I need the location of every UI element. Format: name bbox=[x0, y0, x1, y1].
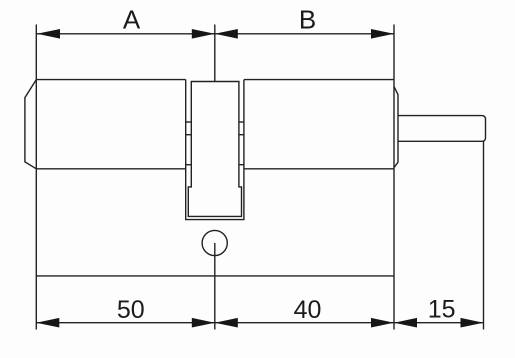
wire dimension line 40 bbox=[215, 322, 394, 324]
node arrow A left bbox=[37, 29, 60, 39]
node right chamfer collar bbox=[394, 87, 398, 168]
node cam outer channel bbox=[186, 80, 244, 220]
node screw hole circle bbox=[202, 230, 227, 255]
node arrow 40 left bbox=[215, 318, 238, 328]
node figure bottom line bbox=[36, 275, 394, 277]
node arrow A right bbox=[192, 29, 215, 39]
node left chamfer bbox=[25, 80, 36, 169]
node arrow 40 right bbox=[371, 318, 394, 328]
wire center extension line top bbox=[214, 25, 216, 82]
wire dimension line A bbox=[37, 33, 215, 35]
svg-text:50: 50 bbox=[117, 296, 145, 324]
svg-text:15: 15 bbox=[428, 296, 456, 324]
svg-text:40: 40 bbox=[294, 296, 322, 324]
wire center extension line bottom bbox=[214, 243, 216, 330]
node cam wall tick row3 bbox=[186, 164, 192, 166]
node arrow 50 left bbox=[36, 318, 59, 328]
node body bottom edge right bbox=[244, 168, 394, 170]
node arrow 15 right bbox=[461, 318, 484, 328]
node tail shaft bbox=[398, 116, 486, 142]
node body bottom edge left bbox=[36, 168, 185, 170]
node cam inner outline bbox=[188, 82, 241, 217]
wire dimension line B bbox=[215, 33, 394, 35]
wire shaft-end extension line bbox=[483, 142, 485, 330]
node arrow B right bbox=[371, 29, 394, 39]
node arrow 15 left bbox=[394, 318, 417, 328]
svg-text:A: A bbox=[123, 5, 141, 35]
node body top edge left bbox=[36, 79, 185, 81]
node cam wall tick row2 bbox=[186, 134, 192, 136]
node cam wall tick row1 bbox=[186, 121, 192, 123]
node body top edge right bbox=[244, 79, 394, 81]
node arrow 50 right bbox=[192, 318, 215, 328]
svg-text:B: B bbox=[299, 5, 316, 35]
wire left extension line bbox=[35, 25, 37, 330]
node arrow B left bbox=[215, 29, 238, 39]
wire right body extension line bbox=[393, 25, 395, 330]
wire dimension line 50 bbox=[36, 322, 215, 324]
wire dimension line 15 bbox=[394, 322, 484, 324]
